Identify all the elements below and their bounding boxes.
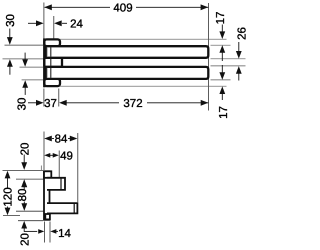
arm1 top extension to left xyxy=(16,178,43,180)
svg-text:120: 120 xyxy=(3,187,15,206)
pivot cap 1 (top) xyxy=(44,39,60,46)
hinge pin thin lines xyxy=(46,47,48,57)
dim 20 bottom xyxy=(21,221,27,229)
extension line arm1 inner end xyxy=(58,151,60,178)
extension line left (plate left edge, vertical) xyxy=(43,3,45,39)
dim 30 vertical line with down arrow xyxy=(9,29,11,42)
thin line L6 (cap bottom level across) xyxy=(59,85,227,87)
dim 49 row xyxy=(44,153,50,158)
side view: wall plate xyxy=(44,171,50,220)
svg-text:20: 20 xyxy=(20,233,32,246)
dim 409 line xyxy=(45,6,110,8)
dim 17 bottom-right xyxy=(221,65,223,76)
svg-text:372: 372 xyxy=(123,98,142,110)
svg-text:409: 409 xyxy=(113,2,132,14)
extension line x=53.8 (24 dim) xyxy=(53,16,55,39)
arm 1 (upper bar) xyxy=(46,46,208,58)
plate bottom extension left xyxy=(18,220,43,222)
extension line from arm1 top to left xyxy=(5,44,44,46)
dim 120 xyxy=(5,171,11,179)
svg-text:84: 84 xyxy=(55,134,68,146)
dim 24 tail and text xyxy=(62,22,67,24)
extension line arm2 end xyxy=(77,133,79,202)
svg-text:20: 20 xyxy=(20,143,32,156)
dim 30 bottom-left xyxy=(24,53,26,61)
dim 14 xyxy=(44,222,46,243)
arm 1 (side) xyxy=(47,178,65,190)
top knuckle xyxy=(44,171,51,178)
svg-text:17: 17 xyxy=(218,106,230,119)
dim 409 left arrow xyxy=(44,4,52,10)
svg-text:37: 37 xyxy=(44,98,57,110)
extension line above plate (left) xyxy=(43,132,45,171)
svg-text:30: 30 xyxy=(17,98,29,111)
arm 2 (side) xyxy=(47,203,77,213)
arm 2 (lower bar) xyxy=(46,67,208,79)
dim 409 right arrow xyxy=(201,4,209,10)
wall plate edge (thick vertical, plan) xyxy=(43,38,45,87)
right side extension lines xyxy=(211,44,231,46)
thin line L1 (cap top level across) xyxy=(59,38,227,40)
dim 24 left-pointing arrow xyxy=(54,20,62,26)
svg-text:14: 14 xyxy=(58,228,71,240)
svg-text:26: 26 xyxy=(237,27,249,40)
svg-text:17: 17 xyxy=(215,12,227,25)
dim 37 / 372 row xyxy=(28,102,37,104)
dim 80 xyxy=(21,180,27,188)
svg-text:49: 49 xyxy=(60,150,73,162)
svg-text:30: 30 xyxy=(5,14,17,27)
plate top extension to left xyxy=(3,169,44,171)
bottom knuckle xyxy=(45,214,50,219)
dim 24 leader tail left xyxy=(28,22,36,24)
extension line right end (arm tips, vertical) xyxy=(208,3,210,111)
dim 24 right-pointing arrow xyxy=(36,20,44,26)
svg-text:24: 24 xyxy=(70,18,83,30)
svg-text:80: 80 xyxy=(17,189,29,202)
hinge block between arms xyxy=(44,58,62,67)
pivot cap 2 (bottom) xyxy=(44,79,60,86)
extension lines below plan view xyxy=(43,89,45,107)
dim 84 row xyxy=(44,136,52,142)
